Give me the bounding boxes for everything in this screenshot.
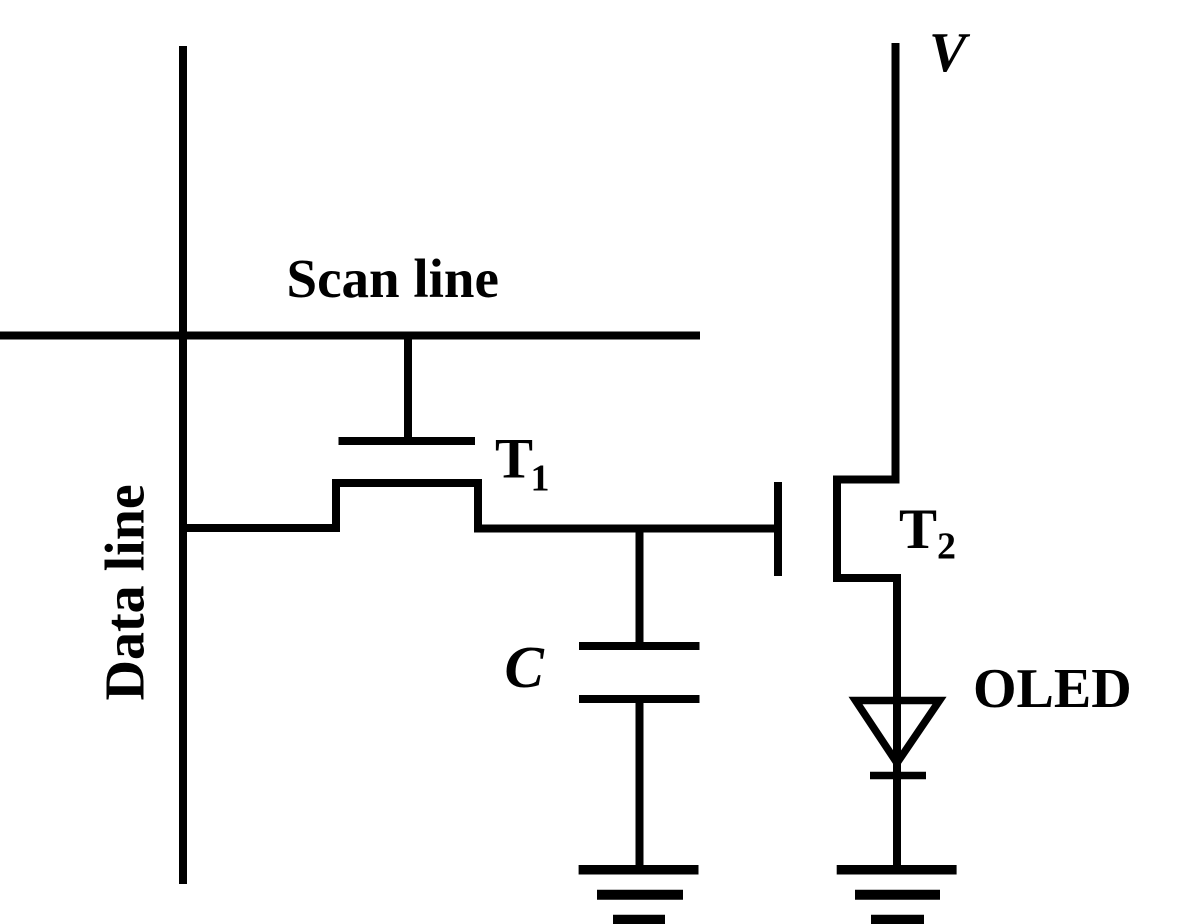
wire capacitor upper stem [636,525,644,649]
wire capacitor lower stem [636,699,644,872]
wire V supply vertical [892,43,900,483]
wire scan line horizontal [0,332,700,340]
transistor T1 gate stem [404,336,412,446]
transistor T2 gate bar [774,482,782,576]
svg-text:Data line: Data line [95,484,157,700]
transistor T2 source lead [833,574,901,582]
transistor T1 gate bar [339,437,476,445]
svg-text:1: 1 [531,458,550,500]
transistor T2 channel [833,476,841,579]
svg-text:T: T [899,498,937,561]
capacitor C top plate [579,642,700,650]
transistor T2 drain lead [833,476,900,484]
svg-text:C: C [505,634,545,700]
ground under OLED [837,870,957,920]
svg-text:T: T [495,428,533,491]
diode OLED cathode bar [870,772,926,780]
wire T2 source down through OLED to ground [893,574,901,872]
ground under capacitor [579,870,699,920]
diode OLED triangle [856,701,940,764]
svg-text:Scan line: Scan line [287,248,499,309]
svg-text:2: 2 [937,526,956,568]
wire data line vertical [179,46,187,884]
svg-text:V: V [929,22,971,84]
svg-text:OLED: OLED [973,658,1132,720]
capacitor C bottom plate [579,695,700,703]
transistor T1 channel and wire to T2 gate [183,483,776,529]
